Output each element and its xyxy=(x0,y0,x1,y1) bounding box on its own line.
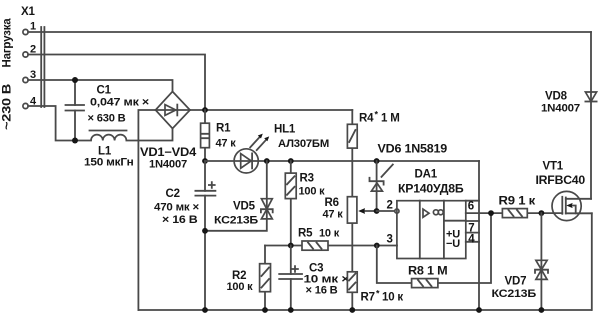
VD1-VD4 label xyxy=(140,147,197,171)
VD6 label and leader xyxy=(378,144,448,177)
node Нагрузка label xyxy=(2,18,14,68)
svg-text:~230 В: ~230 В xyxy=(2,84,14,130)
pin number 4 xyxy=(468,234,475,246)
resistor R2 xyxy=(260,246,271,311)
capacitor C2 xyxy=(195,161,215,310)
svg-text:10 к: 10 к xyxy=(319,228,340,240)
R6 value label xyxy=(323,197,344,221)
svg-text:0,047 мк ×: 0,047 мк × xyxy=(90,97,149,109)
svg-text:*: * xyxy=(375,110,379,120)
svg-text:VD6 1N5819: VD6 1N5819 xyxy=(378,144,448,156)
node pin6-R8 junction xyxy=(488,210,494,216)
svg-text:R1: R1 xyxy=(216,123,231,135)
capacitor C3 xyxy=(279,246,302,311)
node R1 bottom junction xyxy=(202,158,208,164)
svg-text:DA1: DA1 xyxy=(415,169,438,181)
wire drain vertical xyxy=(590,32,592,199)
svg-text:VD8: VD8 xyxy=(545,91,568,103)
svg-text:100 к: 100 к xyxy=(227,281,254,293)
VD5 label xyxy=(214,201,258,227)
resistor R3 xyxy=(285,161,296,246)
node C3 bottom junction xyxy=(288,307,294,313)
R1 value label xyxy=(216,123,237,150)
svg-text:R6: R6 xyxy=(325,197,339,209)
resistor R8 xyxy=(412,279,438,288)
wire pin3 to R8 xyxy=(377,213,491,283)
wire source vertical xyxy=(591,213,593,310)
wire pin6 output xyxy=(466,212,563,214)
VD8 label xyxy=(541,91,580,115)
inductor L1 xyxy=(90,129,173,141)
resistor R7 xyxy=(347,272,357,293)
R2 value label xyxy=(227,270,254,293)
svg-text:150 мкГн: 150 мкГн xyxy=(84,157,134,169)
resistor R5 xyxy=(302,241,328,250)
node R3 top junction xyxy=(288,158,294,164)
pin number 4 xyxy=(30,96,37,108)
MOSFET VT1 xyxy=(552,191,592,220)
svg-text:АЛ307БМ: АЛ307БМ xyxy=(278,138,329,150)
node bridge plus junction xyxy=(202,107,208,113)
wire R5 line pin3 xyxy=(265,245,397,247)
pin number 6 xyxy=(468,201,474,213)
pin 2 inverting input circle xyxy=(395,209,399,213)
VD7 label xyxy=(492,276,537,301)
svg-text:*: * xyxy=(376,289,380,299)
svg-text:10 к: 10 к xyxy=(382,292,403,304)
node VD7 bottom junction xyxy=(539,307,545,313)
DA1 label xyxy=(398,169,464,196)
node VD5-C2 junction xyxy=(202,228,208,234)
C2 value label xyxy=(154,188,199,226)
pin cell column xyxy=(466,201,479,242)
capacitor C1 xyxy=(66,80,85,141)
HL1 label xyxy=(274,124,329,151)
svg-text:1 М: 1 М xyxy=(381,113,400,125)
node R2 bottom junction xyxy=(262,307,268,313)
svg-text:КС213Б: КС213Б xyxy=(214,215,258,227)
svg-text:× 16 В: × 16 В xyxy=(306,285,338,297)
node R3-C3-R5 junction xyxy=(288,243,294,249)
wire bridge plus output xyxy=(190,109,352,111)
wire pin1 top rail xyxy=(28,31,591,33)
L1 value label xyxy=(84,146,134,169)
svg-text:470 мк ×: 470 мк × xyxy=(154,202,199,214)
op-amp DA1 box xyxy=(397,201,466,259)
LED HL1 xyxy=(234,134,269,173)
svg-text:R3: R3 xyxy=(300,173,314,185)
node C2 bottom junction xyxy=(202,307,208,313)
svg-text:× 16 В: × 16 В xyxy=(162,214,198,226)
VT1 label xyxy=(536,161,586,188)
C1 value label xyxy=(88,85,150,125)
resistor R4 xyxy=(347,124,357,148)
svg-text:КР140УД8Б: КР140УД8Б xyxy=(398,184,464,196)
svg-text:C2: C2 xyxy=(166,188,180,200)
connector X1 label xyxy=(21,6,35,18)
zener VD7 xyxy=(535,213,548,310)
node C1 bottom junction xyxy=(72,138,78,144)
node x479 bottom junction xyxy=(476,307,482,313)
wire R4-R6-R7 chain xyxy=(351,110,353,310)
supply labels +U -U xyxy=(446,229,460,251)
R4 value label xyxy=(359,110,400,125)
wire pin4 to L1 xyxy=(28,106,91,141)
node wiper junction xyxy=(374,208,380,214)
R3 value label xyxy=(299,173,326,198)
R7 value label xyxy=(361,289,404,304)
wire bridge minus to bottom rail xyxy=(138,110,155,310)
svg-text:6: 6 xyxy=(468,201,474,213)
svg-text:47 к: 47 к xyxy=(216,138,237,150)
pin number 3 xyxy=(30,69,36,81)
svg-text:КС213Б: КС213Б xyxy=(492,288,537,300)
pin number 7 xyxy=(468,223,474,235)
schottky diode VD6 xyxy=(370,161,384,211)
pin number 2 label xyxy=(387,200,393,212)
node ~230 V label xyxy=(2,84,14,130)
R8 value label xyxy=(408,266,448,278)
svg-text:VD5: VD5 xyxy=(233,201,256,213)
svg-text:VT1: VT1 xyxy=(543,161,564,173)
node R7 bottom junction xyxy=(349,307,355,313)
connector X1 bars xyxy=(41,27,44,107)
svg-text:R5: R5 xyxy=(298,228,313,240)
svg-text:C1: C1 xyxy=(97,85,112,97)
resistor R9 xyxy=(502,209,527,218)
svg-text:VD1−VD4: VD1−VD4 xyxy=(140,147,197,159)
node pin3 junction xyxy=(374,243,380,249)
svg-text:VD7: VD7 xyxy=(505,276,527,288)
svg-text:R7: R7 xyxy=(361,292,375,304)
wire bottom rail xyxy=(138,309,591,311)
svg-text:X1: X1 xyxy=(21,6,35,18)
svg-text:R9 1 к: R9 1 к xyxy=(499,196,536,208)
R5 value label xyxy=(298,228,340,240)
node C1 top junction xyxy=(72,77,78,83)
svg-text:100 к: 100 к xyxy=(299,186,326,198)
svg-text:1N4007: 1N4007 xyxy=(149,159,187,171)
wire supply vertical x479 xyxy=(478,161,480,310)
svg-text:IRFBC40: IRFBC40 xyxy=(536,175,586,187)
svg-text:× 630 В: × 630 В xyxy=(88,113,126,125)
wire pin2 to bridge output xyxy=(28,55,205,111)
bridge rectifier VD1-VD4 xyxy=(156,92,191,129)
svg-text:Нагрузка: Нагрузка xyxy=(2,18,14,68)
wire pin3 to bridge top xyxy=(28,80,172,92)
svg-text:3: 3 xyxy=(387,234,393,246)
wire positive rail y161 xyxy=(205,160,479,162)
potentiometer R6 xyxy=(347,197,376,223)
svg-text:R8 1 М: R8 1 М xyxy=(408,266,448,278)
node VD6 top junction xyxy=(374,158,380,164)
svg-text:−U: −U xyxy=(446,238,460,250)
node gate junction xyxy=(539,210,545,216)
wire wiper to pin2 xyxy=(377,210,395,212)
svg-text:HL1: HL1 xyxy=(274,124,296,136)
R9 value label xyxy=(499,196,536,208)
svg-text:1: 1 xyxy=(30,21,36,33)
node HL1 right junction xyxy=(264,158,270,164)
pin number 2 xyxy=(30,44,36,56)
resistor R1 xyxy=(201,110,210,161)
svg-text:2: 2 xyxy=(387,200,393,212)
zener VD5 xyxy=(205,161,273,231)
svg-text:R4: R4 xyxy=(359,113,374,125)
pin number 3 label xyxy=(387,234,393,246)
svg-text:1N4007: 1N4007 xyxy=(541,103,580,115)
C3 value label xyxy=(304,263,350,297)
diode VD8 xyxy=(585,92,596,102)
connector X1 pins xyxy=(23,29,28,108)
svg-text:47 к: 47 к xyxy=(323,209,344,221)
pin number 1 xyxy=(30,21,36,33)
svg-text:4: 4 xyxy=(468,234,475,246)
